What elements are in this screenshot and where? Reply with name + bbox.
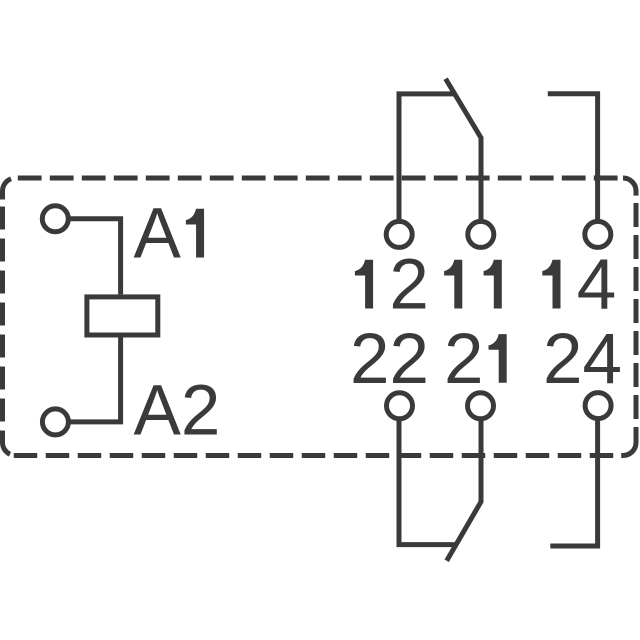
switch arm bottom + wire pin 21 (common) (447, 419, 481, 561)
wire A1 to coil (68, 219, 120, 295)
terminal 24 (585, 393, 611, 419)
terminal A2 (42, 409, 68, 435)
svg-text:2: 2 (389, 246, 429, 325)
label 12 (355, 246, 429, 325)
wire pin 14 (NO top) (548, 94, 598, 222)
svg-text:2: 2 (444, 320, 484, 399)
corner top-left (3, 179, 12, 200)
label 21 (444, 320, 507, 399)
svg-text:24: 24 (543, 320, 622, 399)
terminal 14 (585, 221, 611, 247)
wire pin 22 (NC bottom) (399, 419, 456, 545)
svg-text:A: A (134, 195, 182, 274)
relay body outline: top edge (dashed) (18, 176, 623, 181)
terminal 21 (468, 393, 494, 419)
coil K1 (87, 297, 158, 335)
corner top-right (623, 178, 636, 196)
svg-text:4: 4 (577, 246, 617, 325)
switch arm top + wire pin 11 (common) (446, 79, 481, 222)
corner bottom-right (621, 441, 636, 456)
corner bottom-left (2, 443, 10, 455)
terminal 11 (468, 221, 494, 247)
terminal 12 (386, 221, 412, 247)
label 14 (542, 246, 616, 325)
label A1 (134, 195, 205, 274)
relay body outline: left edge (dashed) (0, 207, 5, 444)
wire coil to A2 (68, 338, 120, 422)
wire pin 12 (NC top) (399, 94, 454, 221)
relay body outline: bottom edge (dashed) (14, 453, 623, 458)
label 11 (444, 260, 502, 309)
wire pin 24 (NO bottom) (550, 419, 597, 546)
terminal A1 (42, 206, 68, 232)
relay body outline: right edge (dashed) (634, 203, 639, 443)
terminal 22 (387, 393, 413, 419)
svg-text:22: 22 (350, 320, 429, 399)
svg-text:A2: A2 (134, 372, 221, 451)
